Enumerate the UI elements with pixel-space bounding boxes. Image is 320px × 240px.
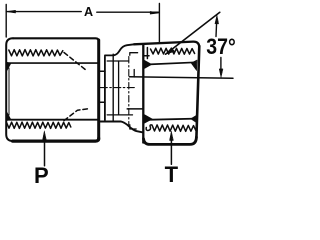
nut right lower wedge xyxy=(191,116,196,123)
hex top thread zigzag (female pipe thread) xyxy=(9,50,63,56)
hidden taper line lower (dashed) xyxy=(64,109,88,121)
centerline horizontal (dash-dot) xyxy=(100,87,135,89)
neck lower line xyxy=(100,101,105,103)
collar left edge xyxy=(104,57,106,121)
hex body outline (P end) xyxy=(13,38,99,41)
nut lower flat line xyxy=(147,119,197,120)
hex bottom thread zigzag xyxy=(7,122,71,128)
nut upper flat line xyxy=(147,62,197,64)
svg-text:A: A xyxy=(84,5,93,19)
collar inner bottom line xyxy=(107,114,132,116)
hex left upper corner wedge xyxy=(6,62,11,72)
nut left lower wedge xyxy=(144,115,152,124)
sleeve nose bracket bottom xyxy=(130,125,136,129)
hex body right edge xyxy=(97,40,100,139)
P port leader arrow xyxy=(44,140,46,166)
hex upper flat line xyxy=(9,62,99,64)
angle arrow lower head xyxy=(219,69,223,78)
sleeve OD vertical line xyxy=(118,61,120,115)
angle arrow upper (points up to cone line) xyxy=(215,23,218,37)
dimension A right arrowhead xyxy=(150,11,159,14)
angle arrow upper head xyxy=(215,15,219,24)
dimension A line right segment xyxy=(97,11,159,13)
P arrowhead xyxy=(43,131,47,140)
sleeve fall curve to nut bottom xyxy=(121,122,143,133)
svg-text:T: T xyxy=(165,162,179,185)
nut left upper wedge xyxy=(144,60,152,68)
collar inner top line xyxy=(107,60,128,62)
hex left end inner edge xyxy=(8,68,10,115)
hidden taper line upper (dashed) xyxy=(64,53,87,71)
nut top thread zigzag (37 deg flare thread) xyxy=(151,48,195,54)
dimension A left extension line xyxy=(5,5,7,38)
dimension A right extension line xyxy=(158,4,160,43)
nut right edge xyxy=(196,46,199,138)
sleeve step top vertical xyxy=(146,48,148,59)
neck upper line xyxy=(100,70,105,72)
collar top shelf xyxy=(105,54,114,56)
hex body bottom edge xyxy=(13,138,99,141)
hex left lower corner wedge xyxy=(6,111,11,121)
centerline vertical (dash-dot) xyxy=(128,57,130,125)
hex lower flat line xyxy=(8,119,98,121)
svg-text:P: P xyxy=(34,163,49,185)
short vertical at bore line start xyxy=(133,70,135,78)
svg-text:37°: 37° xyxy=(206,34,236,59)
tube bore line (extends right for angle dimension) xyxy=(130,77,234,79)
collar right edge xyxy=(112,54,114,121)
sleeve inner step line bottom xyxy=(127,108,142,110)
dimension A line left segment xyxy=(6,11,81,13)
dimension A left arrowhead xyxy=(6,10,15,13)
sleeve step top horizontal xyxy=(143,55,149,57)
collar bottom shelf xyxy=(100,121,121,123)
sleeve rise curve to nut top xyxy=(113,44,134,55)
37 deg flare cone line xyxy=(166,12,220,54)
angle arrow lower (points down to bore line) xyxy=(220,58,222,70)
T port leader arrow xyxy=(170,140,172,165)
T arrowhead xyxy=(170,131,174,140)
nut left edge xyxy=(142,45,144,143)
flare cone line arrowhead xyxy=(166,48,175,55)
nut right upper wedge xyxy=(191,60,197,71)
nut top edge xyxy=(134,42,199,47)
nut bottom thread zigzag with start curl xyxy=(146,125,196,131)
nut bottom edge xyxy=(144,137,197,144)
hex body left edge xyxy=(6,38,13,141)
sleeve nose bracket top xyxy=(130,53,138,56)
